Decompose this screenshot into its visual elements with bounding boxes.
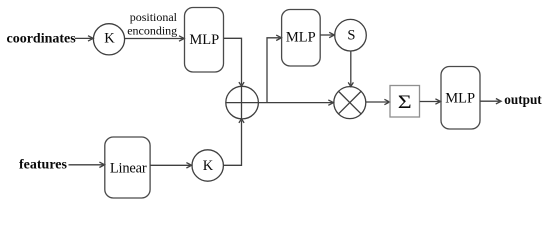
wire adder to multiplier (main horizontal) — [226, 100, 334, 105]
svg-text:K: K — [203, 158, 214, 174]
wire MLP3 to output — [480, 99, 501, 104]
node S circle — [335, 19, 367, 51]
block Linear — [105, 137, 150, 198]
node K1 circle — [93, 24, 124, 55]
svg-text:MLP: MLP — [445, 91, 475, 107]
wire K1 to MLP1 — [125, 36, 184, 41]
svg-text:positional: positional — [130, 10, 178, 24]
block MLP U3 — [441, 67, 480, 130]
node K2 circle — [192, 150, 223, 181]
svg-text:S: S — [347, 28, 355, 44]
wire coordinates to K1 — [75, 36, 93, 41]
block sigma sum — [390, 86, 420, 118]
wire multiplier to sigma — [366, 99, 390, 104]
svg-text:Σ: Σ — [398, 91, 412, 112]
wire sigma to MLP3 — [420, 99, 441, 104]
wire K2 up to adder — [223, 119, 244, 166]
svg-text:K: K — [104, 30, 115, 46]
node adder circle plus — [226, 86, 259, 119]
svg-text:enconding: enconding — [127, 23, 177, 37]
svg-text:MLP: MLP — [189, 32, 219, 48]
node multiplier circle times — [334, 87, 366, 119]
svg-text:MLP: MLP — [286, 30, 316, 46]
wire Linear to K2 — [150, 163, 192, 168]
wire MLP2 to S — [320, 32, 334, 37]
svg-text:features: features — [19, 158, 67, 173]
block MLP U2 — [282, 10, 321, 67]
svg-text:Linear: Linear — [110, 160, 147, 176]
block MLP U1 — [185, 8, 224, 73]
wire S down to multiplier — [348, 51, 353, 87]
svg-text:coordinates: coordinates — [7, 32, 77, 47]
wire features to Linear — [69, 162, 105, 167]
svg-text:output: output — [504, 92, 542, 107]
wire MLP1 to adder — [224, 38, 244, 86]
wire branch up to MLP2 — [267, 35, 281, 103]
